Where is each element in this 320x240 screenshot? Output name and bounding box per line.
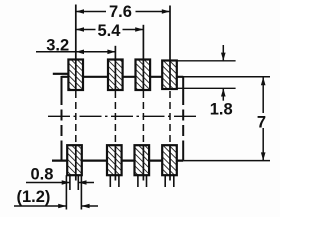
dimension 5.4 line right segment with right arrowhead bbox=[123, 29, 144, 31]
pad P2 bbox=[108, 60, 123, 91]
svg-text:0.8: 0.8 bbox=[31, 166, 54, 184]
lead width lines below pad P5 bbox=[69, 175, 71, 190]
dimension 7.6 line right segment with right arrowhead bbox=[136, 11, 171, 13]
dimension 1.8 upper arrow (pointing down) bbox=[222, 45, 224, 61]
body outline top edge bbox=[62, 76, 184, 78]
dimension (1.2) line left tail with right-pointing arrowhead bbox=[14, 205, 66, 207]
column centerline c3 dashed middle bbox=[142, 91, 144, 145]
pad P1 bbox=[68, 60, 83, 91]
column centerline c1 dashed middle bbox=[75, 91, 77, 145]
svg-text:5.4: 5.4 bbox=[98, 22, 122, 40]
dimension 7 upper segment with up arrowhead bbox=[262, 77, 264, 113]
column centerline c2 solid bbox=[114, 46, 116, 90]
dimension 5.4 line left segment with left arrowhead bbox=[76, 29, 96, 31]
column centerline c4 dashed middle bbox=[169, 91, 171, 145]
body outline top edge extension line to dimension 7 bbox=[183, 76, 270, 78]
dimension (1.2) line right tail with left-pointing arrowhead bbox=[81, 205, 98, 207]
column centerline c4 through pad P8 bbox=[169, 145, 171, 180]
lead width lines below pad P6 bbox=[109, 175, 111, 187]
body outline right edge (dashed) bbox=[182, 76, 184, 94]
pad P7 bbox=[135, 145, 150, 175]
column centerline c1 through pad P5 bbox=[75, 145, 77, 180]
dimension 3.2 line with tail and arrowheads bbox=[36, 51, 116, 53]
pad P5 bbox=[67, 145, 82, 175]
column centerline c3 through pad P7 bbox=[142, 145, 144, 180]
pad P3 bbox=[136, 60, 151, 91]
pad P4 bbox=[162, 61, 177, 90]
dimension 7.6 line left segment with left arrowhead bbox=[76, 11, 106, 13]
column centerline c3 solid bbox=[142, 25, 144, 90]
body outline bottom edge extension line to dimension 7 bbox=[183, 160, 270, 162]
svg-text:7: 7 bbox=[257, 113, 266, 131]
lead line top-left pin bbox=[53, 73, 69, 75]
svg-text:3.2: 3.2 bbox=[46, 37, 69, 55]
dimension 7 lower segment with down arrowhead bbox=[262, 128, 264, 161]
pad P6 bbox=[107, 145, 122, 175]
body outline bottom edge bbox=[52, 160, 183, 162]
horizontal dash-dot centerline bbox=[48, 115, 196, 117]
column centerline c2 dashed middle bbox=[114, 91, 116, 145]
pad P4 bottom edge extension line for dimension 1.8 bbox=[177, 87, 236, 89]
column centerline c2 through pad P6 bbox=[114, 145, 116, 180]
dimension 0.8 line right tail with left-pointing arrowhead bbox=[78, 182, 94, 184]
lead width lines below pad P8 bbox=[164, 175, 166, 187]
svg-text:(1.2): (1.2) bbox=[17, 188, 51, 206]
body outline left edge (dashed) bbox=[61, 76, 63, 94]
column centerline c4 solid bbox=[169, 6, 171, 91]
dimension 1.8 lower arrow (pointing up) bbox=[222, 88, 224, 100]
pad P8 bbox=[162, 145, 177, 175]
pad P4 top edge extension line for dimension 1.8 bbox=[177, 60, 236, 62]
dimension 0.8 line left tail with right-pointing arrowhead bbox=[26, 182, 70, 184]
svg-text:1.8: 1.8 bbox=[210, 101, 233, 119]
lead width lines below pad P7 bbox=[137, 175, 139, 187]
pad P5 edge extension lines bbox=[65, 175, 67, 209]
column centerline c1 solid through pads bbox=[75, 5, 77, 91]
svg-text:7.6: 7.6 bbox=[109, 3, 132, 21]
